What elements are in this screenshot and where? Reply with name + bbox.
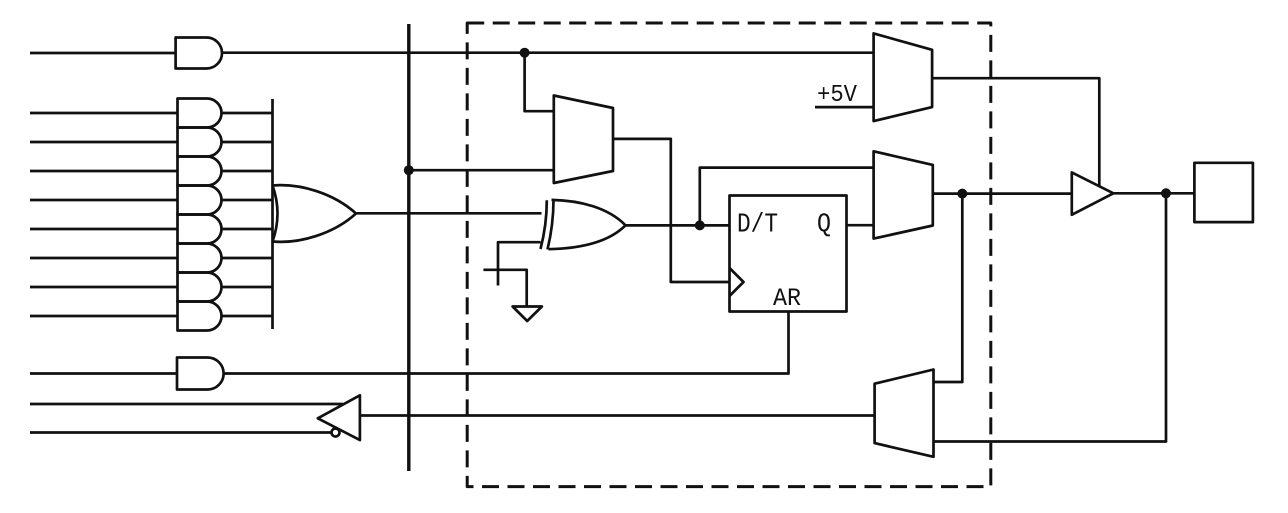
mux M4 (feedback select, points left) xyxy=(875,370,934,457)
ground xyxy=(513,307,542,322)
svg-text:AR: AR xyxy=(773,284,801,313)
tri-state output buffer B1 xyxy=(1072,172,1114,214)
wire: vertical feedback column in AND array xyxy=(407,24,410,471)
node: junction on output pin line for feedback xyxy=(1161,188,1171,198)
wire: M3 output to output buffer xyxy=(933,192,1072,195)
wire: input stub to AND gate A10 (AR term) xyxy=(30,372,177,375)
node: junction on M3 output feeding feedback MUX M4 xyxy=(957,189,967,199)
AND gate A1 (top product term) xyxy=(176,38,222,69)
OR gate O1 (sum of products) xyxy=(273,185,357,242)
wire: O1 output to XOR X1 upper input xyxy=(356,212,542,215)
mux M1 (output enable select) xyxy=(874,33,933,121)
wire: input stub to AND gate A6 xyxy=(30,228,178,231)
AND gate A2 xyxy=(178,99,222,128)
wire: A6 output stub xyxy=(222,228,273,231)
mux M2 (clock select, inner top) xyxy=(554,96,613,184)
AND gate A7 xyxy=(178,244,222,273)
wire: B1 output to I/O pin xyxy=(1113,192,1194,195)
wire: A7 output stub xyxy=(222,257,273,260)
wire: A2 output stub xyxy=(222,112,273,115)
wire: A3 output stub xyxy=(222,141,273,144)
AND gate A3 xyxy=(178,128,222,157)
wire: M3 output down to feedback MUX M4 upper input xyxy=(934,194,963,382)
AND gate A8 xyxy=(178,273,222,302)
AND gate A5 xyxy=(178,186,222,215)
AND gate A4 xyxy=(178,157,222,186)
flip-flop U1 (D/T register) xyxy=(730,196,847,312)
wire: polarity fuse row to ground xyxy=(483,270,526,307)
svg-text:+5V: +5V xyxy=(817,82,858,109)
wire: product term collect line into OR gate xyxy=(271,99,274,329)
AND gate A9 xyxy=(178,302,222,331)
wire: input stub to AND gate A1 xyxy=(30,52,176,55)
wire: M2 output to flip-flop clock input xyxy=(613,139,730,282)
svg-text:D/T: D/T xyxy=(737,211,778,241)
wire: M4 output to feedback buffer B2 xyxy=(360,414,875,417)
dashed OLMC boundary box xyxy=(467,23,991,487)
mux M3 (registered/combinational select) xyxy=(874,151,933,238)
wire: input stub to AND gate A3 xyxy=(30,141,178,144)
wire: M1 output to tri-state enable of buffer xyxy=(932,78,1099,186)
wire: tap from A1 output down to MUX M2 upper input xyxy=(525,53,554,111)
feedback buffer B2 (points left) xyxy=(318,395,360,440)
wire: A10 output to U1 AR input xyxy=(224,312,789,374)
XOR gate X1 (polarity) xyxy=(548,200,626,250)
wire: A8 output stub xyxy=(222,286,273,289)
wire: input stub to AND gate A5 xyxy=(30,199,178,202)
wire: pin feedback down and left to MUX M4 lower input xyxy=(934,193,1167,441)
AND gate A6 xyxy=(178,215,222,244)
node: junction on A1 output feeding MUX M2 select xyxy=(520,48,530,58)
node: junction on D/T input line xyxy=(695,220,705,230)
wire: A5 output stub xyxy=(222,199,273,202)
node: junction on feedback column to MUX M2 data input xyxy=(404,165,414,175)
wire: D/T node up and over to MUX M3 upper input xyxy=(700,168,874,226)
wire: X1 lower input from polarity fuse xyxy=(498,242,541,285)
wire: +5V to MUX M1 lower input xyxy=(815,106,874,109)
wire: input stub to AND gate A8 xyxy=(30,286,178,289)
wire: A4 output stub xyxy=(222,170,273,173)
wire: feedback column to MUX M2 lower input xyxy=(409,169,554,172)
B2 inverting bubble xyxy=(332,429,340,437)
AND gate A10 (async reset product term) xyxy=(177,358,224,390)
wire: A1 output to MUX M1 top input xyxy=(222,51,874,54)
U1 clock chevron xyxy=(730,268,744,296)
wire: input stub to AND gate A4 xyxy=(30,170,178,173)
wire: input stub to AND gate A7 xyxy=(30,257,178,260)
wire: X1 output to flip-flop D/T input xyxy=(626,224,730,227)
wire: A9 output stub xyxy=(222,315,273,318)
svg-text:Q: Q xyxy=(817,211,831,241)
wire: B2 complement output into AND array xyxy=(30,431,332,434)
wire: input stub to AND gate A2 xyxy=(30,112,178,115)
wire: B2 true output into AND array xyxy=(30,403,343,406)
wire: U1 Q output to MUX M3 lower input xyxy=(847,224,874,227)
XOR X1 input arc xyxy=(541,200,547,249)
wire: input stub to AND gate A9 xyxy=(30,315,178,318)
I/O pin P1 xyxy=(1194,163,1253,222)
